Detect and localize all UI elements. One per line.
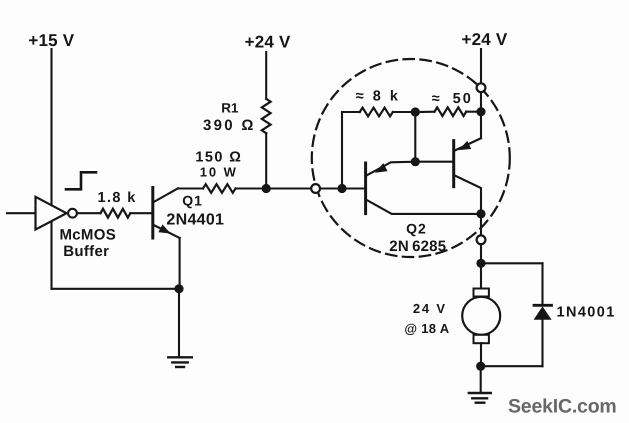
junction dot R1 / 150ohm node (262, 184, 271, 193)
motor M1 bottom brush (474, 335, 489, 343)
wire base node up to 8k (341, 112, 343, 189)
motor M1 body (462, 297, 500, 335)
step waveform symbol (66, 172, 96, 189)
wire Q1 collector to 150ohm (178, 187, 203, 189)
wire 50 to rail (466, 111, 481, 113)
driver emitter arrow (points to bar) (375, 163, 388, 173)
wire corner to 8k resistor (342, 111, 360, 113)
svg-text:1.8 k: 1.8 k (98, 190, 137, 206)
wire ground node down (480, 366, 482, 392)
junction dot motor top node (476, 259, 485, 268)
wire motor bottom to ground node (480, 343, 482, 366)
driver collector lead (366, 199, 481, 214)
svg-text:@ 18 A: @ 18 A (404, 321, 449, 336)
svg-text:Q2: Q2 (406, 221, 427, 237)
wire bottom rail from +15V corner to Q1 emitter node (52, 288, 180, 290)
svg-text:Q1: Q1 (182, 192, 203, 208)
wire mid dot to 50 (415, 111, 434, 113)
dashed circle Q2 package (312, 59, 510, 257)
svg-text:Buffer: Buffer (63, 243, 109, 260)
wire R1 to node (265, 133, 267, 188)
diode 1N4001 top lead (541, 263, 543, 305)
ground left (168, 356, 192, 358)
transistor Q1 base bar (151, 188, 154, 239)
svg-text:+24 V: +24 V (462, 30, 508, 49)
junction dot motor bottom node (476, 362, 485, 371)
svg-text:+24 V: +24 V (245, 33, 291, 52)
junction dot rail top (476, 107, 485, 116)
resistor approx 50 (435, 107, 467, 116)
svg-text:10 W: 10 W (200, 165, 238, 180)
ground right (469, 392, 491, 394)
transistor Q1 collector lead (153, 188, 178, 202)
svg-text:150 Ω: 150 Ω (195, 149, 242, 165)
wire +24V right rail down (480, 49, 482, 138)
wire Q1 emitter down (179, 238, 181, 289)
wire R 1.8k to Q1 base (130, 212, 153, 214)
node open circle collector bottom terminal (477, 235, 486, 244)
driver emitter lead (366, 162, 416, 176)
output emitter lead (454, 138, 481, 151)
node open circle collector top terminal (477, 83, 486, 92)
wire 150ohm to Q2 input node (236, 187, 363, 189)
diode bottom lead (541, 320, 543, 367)
buffer U1 McMOS triangle (36, 197, 67, 230)
transistor Q1 emitter lead (153, 225, 180, 238)
svg-text:2N4401: 2N4401 (166, 211, 224, 228)
svg-text:2N 6285: 2N 6285 (389, 238, 446, 255)
output emitter arrow (458, 141, 471, 150)
resistor approx 8k (360, 108, 393, 117)
svg-text:SeekIC.com: SeekIC.com (508, 396, 617, 418)
svg-text:+15 V: +15 V (28, 31, 74, 50)
transistor Q1 emitter arrow (158, 224, 170, 233)
node open circle Q2 base terminal (311, 184, 320, 193)
svg-text:≈ 8 k: ≈ 8 k (356, 88, 401, 104)
svg-text:1N4001: 1N4001 (557, 305, 616, 321)
wire emitter node to ground (178, 289, 180, 357)
junction dot Q1 emitter / ground rail (174, 284, 183, 293)
resistor R1 390 ohm (262, 99, 271, 133)
wire driver base wire (342, 187, 366, 189)
svg-text:390 Ω: 390 Ω (203, 117, 256, 134)
junction dot between resistors (411, 107, 420, 116)
resistor 150 ohm 10W (203, 184, 236, 193)
transistor Q2 driver base bar (364, 163, 367, 214)
svg-text:McMOS: McMOS (60, 227, 117, 244)
wire buffer input (7, 212, 36, 214)
motor M1 top brush (474, 289, 489, 297)
wire collector rail lower (480, 214, 482, 289)
svg-text:≈ 50: ≈ 50 (432, 91, 473, 107)
buffer output bubble (68, 209, 77, 218)
transistor Q2 output base bar (452, 141, 455, 187)
svg-text:24 V: 24 V (413, 301, 447, 316)
wire motor top node to diode (481, 262, 543, 264)
diode triangle (534, 306, 552, 319)
wire +15V rail down left side (50, 49, 52, 289)
wire +24V rail down to R1 (265, 52, 267, 99)
wire bubble to R 1.8k (77, 212, 101, 214)
resistor 1.8k (101, 209, 131, 218)
output collector lead (454, 175, 481, 214)
junction dot inside Q2 at base (337, 184, 346, 193)
junction dot driver emitter node (411, 157, 420, 166)
wire 8k to mid dot (393, 111, 416, 113)
wire driver node to output base (415, 161, 453, 163)
wire mid dot down to driver node (414, 112, 416, 161)
wire ground node to diode bottom (481, 365, 543, 367)
junction dot rail bottom (collectors) (476, 209, 485, 218)
diode cathode bar (534, 304, 552, 307)
svg-text:R1: R1 (221, 101, 239, 116)
